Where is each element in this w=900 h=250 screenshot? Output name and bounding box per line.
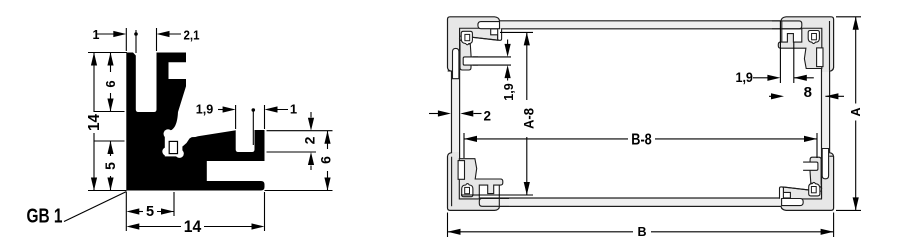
dimension 6 (arm to base, right side) xyxy=(265,131,334,191)
leg lip tick xyxy=(448,70,452,72)
dimension 8 (corner width) xyxy=(769,84,844,101)
dimension A-8 (vertical screw spacing) xyxy=(461,32,537,195)
svg-text:1,9: 1,9 xyxy=(501,83,516,101)
screw clover xyxy=(808,31,819,44)
svg-text:6: 6 xyxy=(318,156,334,164)
dimension 1,9 (left corner screw slot width) xyxy=(473,40,517,101)
cover slide slot xyxy=(478,22,500,29)
svg-text:2: 2 xyxy=(302,136,318,144)
outer silhouette of enclosure xyxy=(448,17,834,211)
slot rim step line xyxy=(781,21,783,42)
bottom-right corner piece (rotated P) and bottom-left corner piece (rotated Q) xyxy=(452,48,834,206)
svg-text:B: B xyxy=(637,225,646,239)
svg-text:2: 2 xyxy=(484,109,492,124)
dimension 2 (wall thickness) xyxy=(429,109,491,124)
svg-text:6: 6 xyxy=(103,80,118,87)
svg-text:8: 8 xyxy=(804,84,812,101)
dimension 1 (arm wall thickness, right) xyxy=(265,102,298,130)
svg-text:2,1: 2,1 xyxy=(184,29,200,43)
profile body (black extrusion cross-section) xyxy=(126,53,264,191)
svg-text:A-8: A-8 xyxy=(521,108,537,129)
boss arm xyxy=(460,40,472,71)
screw slot in leg xyxy=(817,48,823,67)
screw slot in arm xyxy=(463,57,478,65)
screw core square xyxy=(812,34,817,40)
svg-text:GB 1: GB 1 xyxy=(27,206,63,228)
wall band highlights xyxy=(452,22,829,206)
screw-channel clover cutout xyxy=(162,126,200,158)
svg-text:5: 5 xyxy=(102,162,118,170)
svg-text:1,9: 1,9 xyxy=(735,69,753,85)
dimension 14 (profile height) xyxy=(86,53,103,191)
dimension 1 (top wall thickness) xyxy=(93,28,138,53)
svg-text:A: A xyxy=(849,107,863,116)
dimension 5 (screw axis to base, left) xyxy=(88,141,127,191)
corner piece Q (top-right, joint side) xyxy=(772,21,830,179)
dimension 2,1 (top slot width) xyxy=(157,28,200,51)
screw core square xyxy=(465,34,470,40)
svg-text:14: 14 xyxy=(86,114,103,131)
dimension B-8 (horizontal screw spacing) xyxy=(464,132,817,159)
boss wedge xyxy=(460,28,498,40)
corner piece P (top-left, screw boss + cover slot) xyxy=(448,22,502,71)
side wall joint channel xyxy=(822,149,828,179)
dimension 14 (bottom, profile width) xyxy=(126,192,264,236)
dimension 2 (slot depth, right side) xyxy=(267,112,333,170)
svg-text:14: 14 xyxy=(184,218,202,236)
svg-text:B-8: B-8 xyxy=(631,132,652,149)
svg-text:1,9: 1,9 xyxy=(196,102,214,117)
tongue of mating wall xyxy=(772,21,802,29)
dimension B (overall width) xyxy=(448,213,834,239)
svg-text:1: 1 xyxy=(290,102,297,117)
body with arm and tab notch xyxy=(778,28,822,68)
svg-text:5: 5 xyxy=(146,204,154,220)
leg lip line xyxy=(829,21,831,71)
dimension 6 (slot depth, left) xyxy=(88,53,127,112)
dimension A (overall height) xyxy=(836,17,863,211)
dimension 1,9 (right corner tab slot width) xyxy=(735,21,813,85)
dimension 1,9 (arm slot width) xyxy=(196,102,255,146)
screw core square outline xyxy=(169,141,177,153)
interlock tab xyxy=(498,29,502,41)
part label GB 1 with leader line xyxy=(27,192,127,228)
svg-text:1: 1 xyxy=(93,28,100,42)
screw clover xyxy=(461,31,472,44)
dimension 5 (bottom, edge to screw axis) xyxy=(126,192,174,231)
clover-to-tab edge line xyxy=(473,37,498,40)
interior cavity xyxy=(460,29,822,198)
